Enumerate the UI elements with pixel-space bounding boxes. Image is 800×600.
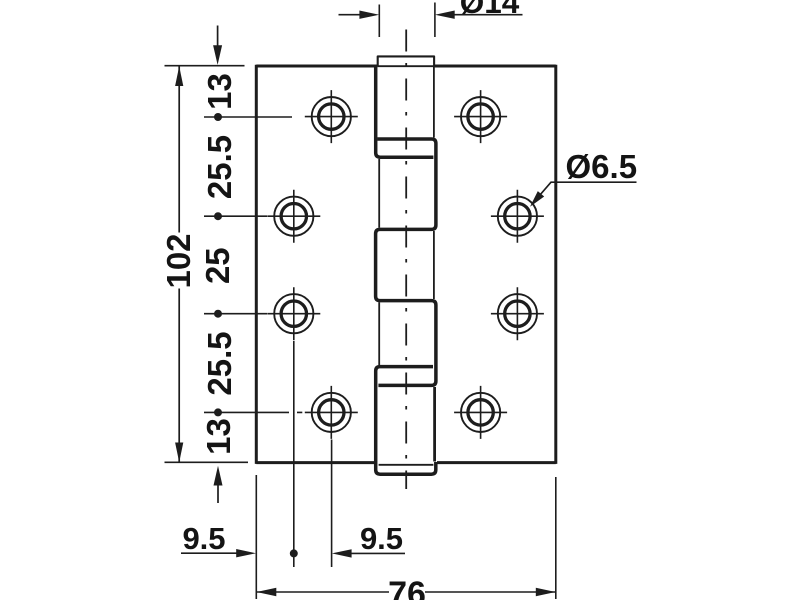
screw hole L3 — [267, 287, 320, 340]
dimension Ø14 — [339, 0, 523, 37]
extension line leaf right edge — [555, 477, 557, 599]
leaf bottom edge — [256, 461, 556, 464]
svg-text:25: 25 — [199, 247, 236, 284]
svg-text:9.5: 9.5 — [182, 521, 225, 556]
dimension 13 bottom — [200, 418, 237, 503]
svg-text:9.5: 9.5 — [360, 521, 403, 556]
svg-text:13: 13 — [201, 73, 238, 110]
extension line leaf left edge — [255, 475, 257, 599]
leaf left edge — [255, 65, 258, 464]
barrel top cap — [378, 56, 434, 66]
svg-text:Ø6.5: Ø6.5 — [566, 148, 638, 185]
dimension 9.5 left — [181, 521, 256, 557]
screw hole R2 — [491, 190, 544, 243]
svg-text:Ø14: Ø14 — [460, 0, 520, 20]
knuckle outline chain 3 (bottom knuckle and cap) — [376, 367, 436, 475]
svg-text:13: 13 — [200, 418, 237, 455]
svg-text:102: 102 — [160, 233, 197, 288]
screw hole R1 — [454, 90, 507, 143]
svg-text:25.5: 25.5 — [201, 135, 238, 199]
dimension 102 — [160, 66, 248, 463]
barrel center line — [405, 30, 407, 490]
svg-text:76: 76 — [388, 575, 426, 600]
leaf top edge — [256, 65, 556, 68]
vertical extension from hole column L inner — [293, 341, 295, 567]
vertical extension from hole L4 — [331, 440, 333, 568]
dimension 13 top — [201, 26, 238, 110]
knuckle outline chain 1 (top-left knuckle) — [376, 67, 434, 158]
dimension Ø6.5 leader — [530, 148, 637, 207]
screw hole L2 — [267, 190, 320, 243]
svg-text:25.5: 25.5 — [201, 331, 238, 395]
row reference lines with dots — [204, 113, 302, 416]
dimension 9.5 right — [332, 521, 405, 558]
screw hole L1 — [305, 90, 358, 143]
screw hole R4 — [454, 386, 507, 439]
screw hole R3 — [491, 287, 544, 340]
dimension 76 — [257, 575, 556, 600]
leaf right edge — [554, 65, 557, 464]
hinge leaf outline — [256, 65, 556, 465]
barrel thin edges — [433, 67, 435, 138]
knuckle outline chain 2 (zigzag) — [376, 139, 436, 385]
screw hole L4 — [305, 386, 358, 439]
